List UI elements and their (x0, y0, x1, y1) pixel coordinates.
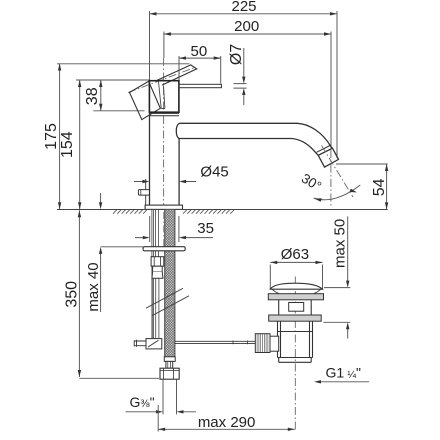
knob connector (270, 336, 279, 351)
dim 35 label (197, 220, 214, 237)
horizontal lever rod (179, 84, 222, 87)
svg-text:max 290: max 290 (198, 414, 256, 431)
outlet vertical axis (dash-dot) (330, 150, 332, 208)
30° arc (314, 185, 361, 200)
dim 350 label (rotated) (63, 281, 80, 308)
svg-text:Ø45: Ø45 (200, 164, 228, 181)
dim 225 label (231, 0, 256, 15)
dim max290 label (198, 414, 256, 431)
dim Ø45 arrows (134, 181, 196, 183)
pop-up rod below deck (152, 210, 154, 339)
svg-text:38: 38 (84, 87, 101, 105)
svg-text:200: 200 (234, 18, 259, 35)
dim max50 label (rotated) (332, 219, 349, 268)
drain body (278, 321, 313, 357)
G3/8 nut (160, 368, 179, 379)
dim 350 bottom extension (79, 377, 159, 379)
dim 225 right extension (336, 11, 338, 158)
deck line (57, 209, 388, 211)
dim 35 arrows (135, 237, 213, 239)
svg-text:350: 350 (63, 281, 80, 308)
rods below nut (152, 278, 159, 338)
dim max40 line segments + arrows (100, 193, 102, 312)
hose end neck (166, 361, 173, 368)
dim G3/8 arrows (126, 411, 197, 413)
clamp screw head (134, 340, 136, 347)
mounting nut middle (153, 266, 163, 272)
dim max40 label (rotated) (85, 262, 102, 311)
spout left rounded cap (176, 123, 179, 138)
dim Ø63 extensions (270, 265, 322, 290)
dim 200 left extension (163, 32, 165, 59)
G1 1/4 leader line + arrow (321, 381, 369, 383)
dim max50 extensions (323, 288, 350, 323)
base flange (145, 205, 182, 209)
dim 200 label (234, 18, 259, 35)
dim 200 right extension (330, 32, 332, 149)
drain center axis (dash-dot) (294, 277, 296, 430)
lever shaft inside box (159, 82, 165, 109)
dim 175 label (rotated) (43, 123, 60, 150)
overflow slot (289, 303, 304, 312)
svg-text:50: 50 (191, 43, 208, 60)
dim 50 line (179, 57, 221, 59)
dim 54 line (386, 164, 388, 209)
dim 154/38 top extension (76, 79, 150, 81)
break line 2 (152, 296, 189, 316)
dim Ø7 tick lines (234, 84, 247, 89)
dim 154 line (79, 80, 81, 209)
label 30° (rotated) (299, 171, 324, 194)
label G1 1/4" (326, 365, 361, 381)
dim max40 extension (101, 246, 143, 248)
svg-text:54: 54 (371, 178, 388, 196)
deck hatch right (183, 210, 234, 214)
dim 350 line (78, 210, 80, 377)
outlet flow axis 30° (dash-dot) (322, 146, 354, 198)
faucet body column (150, 112, 180, 205)
dim 225 line (150, 13, 338, 15)
spout bend inner curve (292, 139, 318, 156)
handle lever up position (156, 65, 197, 85)
mounting nut upper (151, 257, 164, 267)
mounting nut cone (152, 272, 163, 278)
svg-text:max 40: max 40 (85, 262, 102, 311)
dim 38 bottom extension (93, 110, 144, 112)
svg-text:154: 154 (59, 131, 76, 158)
aerator joint lines (317, 145, 333, 155)
dim 175 top extension (57, 63, 190, 65)
spout tube (179, 123, 298, 138)
drain lower washer (269, 315, 322, 321)
dim Ø7 label (rotated) (228, 44, 245, 65)
dome skirt (272, 289, 321, 294)
pop-up knob (138, 190, 149, 196)
hole extension lines Ø35 (150, 216, 179, 242)
dim max290 line (158, 428, 295, 430)
drain tailpiece (279, 358, 312, 363)
aerator outlet (318, 148, 338, 167)
svg-text:max 50: max 50 (332, 219, 349, 268)
dim max290 left extension (157, 405, 159, 432)
svg-text:Ø63: Ø63 (281, 246, 309, 263)
dim 175 line (59, 64, 61, 210)
handle lever down position (130, 81, 161, 119)
dim 225 left extension (149, 11, 151, 81)
dim Ø63 line (270, 261, 322, 263)
dim 50 label (191, 43, 208, 60)
dim 38 label (rotated) (84, 87, 101, 105)
dim Ø7 vertical line + arrows (243, 48, 245, 105)
svg-text:Ø7: Ø7 (228, 44, 245, 65)
dim 50 extensions (179, 56, 221, 84)
rod clamp (146, 339, 162, 349)
dim 54 top extension (336, 163, 388, 165)
30° arc arrowheads (314, 189, 357, 202)
linkage rod (175, 341, 255, 343)
svg-text:225: 225 (231, 0, 256, 15)
drain plug dome (270, 283, 322, 289)
dim 154 label (rotated) (59, 131, 76, 158)
lever axis (dash-dot tilted) (128, 67, 196, 93)
dim 200 line (164, 33, 331, 35)
hose end collar (164, 357, 175, 362)
dim Ø45 label (200, 164, 228, 181)
mounting washer plate (143, 247, 185, 251)
spout bend outer curve (298, 123, 333, 148)
under-deck axis (dash-dot) (163, 212, 165, 250)
label G3/8" (130, 394, 155, 410)
svg-text:G⅜": G⅜" (130, 394, 155, 410)
deck hatch left (113, 210, 147, 214)
rod adjustment ticks (233, 341, 248, 345)
dim 54 label (rotated) (371, 178, 388, 196)
break line 1 (146, 288, 183, 308)
body joint lines (150, 113, 180, 115)
dim 38 line (100, 80, 102, 111)
pipe below nut / G3/8 extensions (163, 379, 177, 414)
knurled lever knob (255, 334, 270, 353)
drain neck (279, 300, 312, 315)
drain top washer (268, 294, 323, 300)
braided supply hose (165, 210, 175, 357)
pop-up rod above deck (145, 179, 147, 209)
svg-text:G1¼": G1¼" (326, 365, 361, 381)
cartridge head box (149, 81, 179, 113)
dim max50 line segments + arrows (347, 216, 349, 338)
svg-text:175: 175 (43, 123, 60, 150)
svg-text:30°: 30° (299, 171, 324, 194)
threaded stud (155, 210, 158, 257)
dim Ø63 label (281, 246, 309, 263)
svg-text:35: 35 (197, 220, 214, 237)
vertical center axis (dash-dot) (163, 58, 165, 205)
